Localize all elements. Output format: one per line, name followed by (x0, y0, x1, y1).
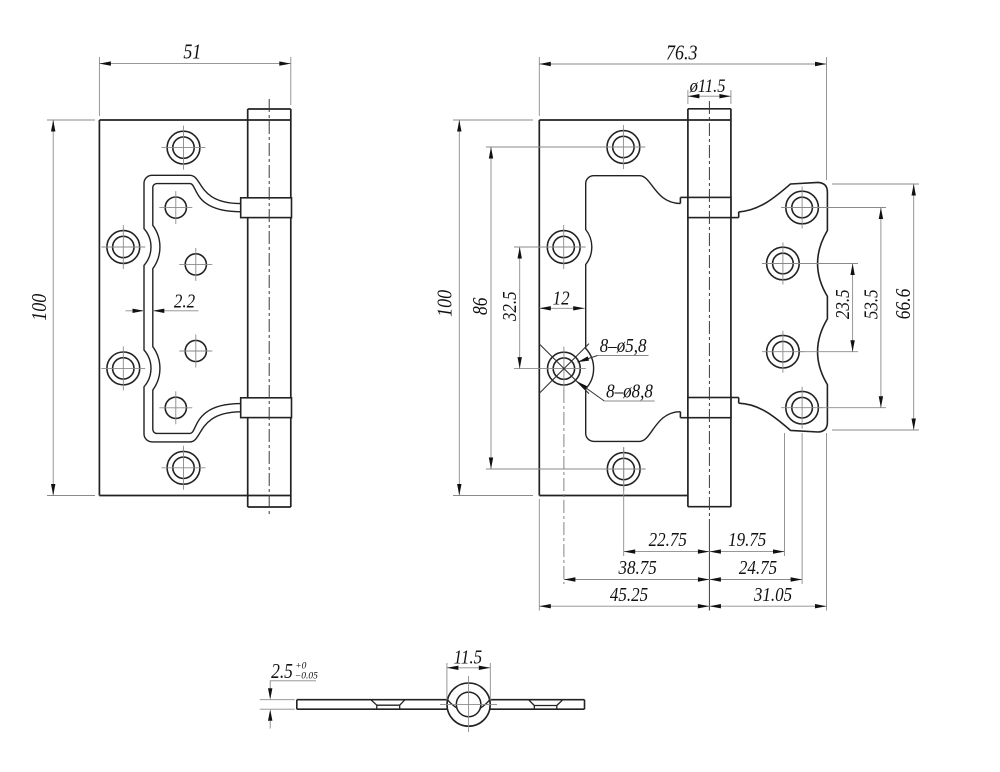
left view: countersunk hole left-upper (101, 225, 145, 269)
front view: leaf hole upper (762, 243, 804, 285)
top view: leaf bar outline (297, 700, 585, 710)
front view: pin barrel column (688, 109, 731, 507)
front view: leaf hole lower (762, 331, 804, 373)
dimension diameter 11.5 (pin) (688, 75, 731, 104)
svg-text:2.2: 2.2 (174, 290, 195, 313)
svg-text:12: 12 (553, 287, 570, 310)
svg-text:32.5: 32.5 (499, 291, 522, 322)
dimension 2.2 (leaf thickness, left view) (126, 290, 199, 313)
front view: upper collar (680, 197, 738, 217)
front view: leaf hole top (781, 187, 823, 229)
svg-text:−0.05: −0.05 (295, 672, 318, 682)
dimension 51 (top width, left view) (99, 40, 290, 116)
front view: lower collar (680, 398, 738, 418)
svg-text:8–ø8,8: 8–ø8,8 (606, 380, 653, 403)
front view: plate hole bottom (602, 447, 646, 491)
front view: plate hole top (601, 125, 645, 169)
left view: upper curved arm to collar (190, 175, 241, 212)
left view: through hole lower (159, 391, 192, 424)
extension lines below front view (539, 390, 826, 611)
svg-text:66.6: 66.6 (893, 288, 916, 319)
dimension 53.5 (leaf holes, front view) (819, 208, 886, 408)
svg-text:ø11.5: ø11.5 (689, 75, 726, 97)
dimension 19.75 (709, 529, 784, 554)
front view: left plate outline (539, 120, 731, 496)
svg-text:45.25: 45.25 (610, 584, 648, 607)
left view: through hole right-upper (179, 248, 212, 281)
dimension 45.25 (539, 584, 709, 609)
left view: countersunk hole left-lower (101, 346, 145, 390)
dimension 76.3 (top width, front view) (539, 41, 826, 180)
svg-text:31.05: 31.05 (753, 584, 792, 607)
dimension 100 (height, left view) (28, 120, 95, 496)
svg-text:11.5: 11.5 (454, 646, 482, 669)
left view: lower curved arm to collar (190, 404, 241, 442)
top view: pin inner circle (456, 692, 481, 717)
svg-text:100: 100 (28, 294, 52, 321)
label 8-diam8,8 with leader (577, 380, 655, 403)
dimension 11.5 (top view) (447, 646, 490, 700)
dimension 38.75 (564, 557, 710, 582)
svg-text:22.75: 22.75 (649, 529, 687, 552)
svg-text:24.75: 24.75 (739, 557, 777, 580)
left view: folded hinge plate outline (99, 120, 290, 496)
dimension 2.5 +0/-0.05 (leaf thickness, top view) (260, 661, 318, 729)
svg-text:2.5: 2.5 (271, 661, 293, 684)
top view: countersink right (529, 700, 563, 710)
dimension 31.05 (709, 584, 826, 609)
svg-text:8–ø5,8: 8–ø5,8 (600, 335, 647, 358)
svg-text:86: 86 (470, 297, 493, 315)
front view: pin centerline (708, 101, 710, 611)
front view: leaf hole bottom (781, 387, 823, 429)
svg-text:53.5: 53.5 (860, 289, 883, 319)
left view: through hole right-lower (179, 335, 212, 368)
dimension 66.6 (leaf height, front view) (832, 184, 919, 430)
svg-text:76.3: 76.3 (666, 41, 698, 65)
dimension 24.75 (709, 557, 802, 582)
top view: barrel crosshair (440, 676, 497, 732)
dimension 12 (edge to cutout, front view) (539, 287, 584, 310)
front view: plate hole middle-lower (detailed) (542, 347, 586, 391)
left view: folded leaf cutout outline (outer line) (144, 175, 190, 442)
dimension 32.5 (hole span, front view) (499, 247, 542, 369)
left view: folded leaf cutout outline (inner line) (153, 184, 190, 434)
top view: fillets bar-to-pin (447, 700, 490, 709)
top view: barrel outer circle (447, 683, 490, 726)
left view: barrel centerline (268, 99, 270, 517)
dimension 22.75 (624, 529, 710, 554)
svg-text:100: 100 (433, 290, 457, 317)
front view: plate hole middle-upper (542, 225, 586, 269)
left view: upper knuckle collar (241, 198, 292, 218)
dimension 100 (height, front view) (433, 120, 533, 496)
svg-text:51: 51 (183, 40, 201, 64)
left view: knuckle barrel column (248, 109, 291, 507)
svg-text:23.5: 23.5 (832, 289, 855, 319)
left view: countersunk hole top (162, 126, 206, 170)
label 8-diam5,8 with leader (578, 335, 649, 362)
top view: countersink left (371, 700, 405, 710)
front view: X mark on detailed hole (539, 344, 589, 394)
dimension 86 (hole span, front view) (470, 147, 645, 469)
svg-text:38.75: 38.75 (618, 557, 657, 580)
svg-text:+0: +0 (295, 662, 306, 672)
dimension 23.5 (leaf holes, front view) (800, 264, 858, 352)
front view: right leaf scalloped outline (739, 182, 828, 432)
front view: folded leaf cutout outline (586, 176, 681, 442)
left view: lower knuckle collar (241, 398, 292, 418)
left view: through hole upper (159, 191, 192, 224)
left view: countersunk hole bottom (162, 446, 206, 490)
svg-text:19.75: 19.75 (728, 529, 766, 552)
